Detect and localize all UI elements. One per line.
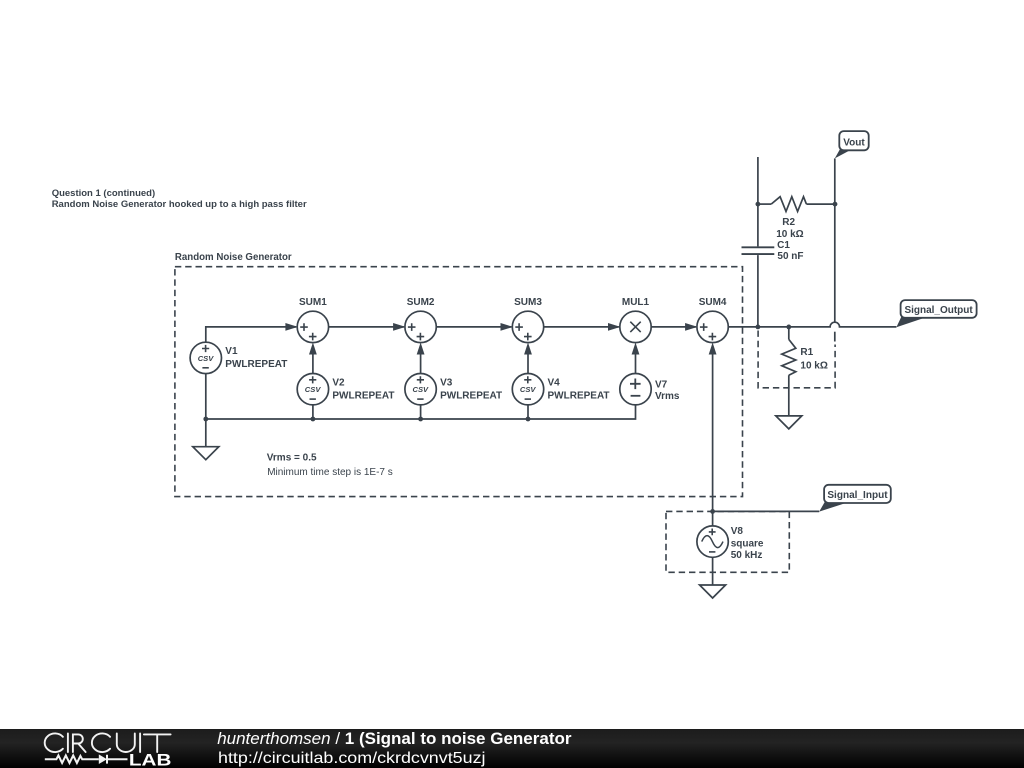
- wire: V3 to SUM2: [420, 354, 422, 373]
- wire: R1 bottom lead to ground: [788, 375, 790, 416]
- svg-text:PWLREPEAT: PWLREPEAT: [332, 390, 394, 401]
- wire: Signal_Input horizontal: [713, 510, 820, 512]
- annotation box: high pass filter (dashed, partial): [758, 331, 835, 388]
- voltage source V1 (PWLREPEAT CSV source): [190, 342, 287, 373]
- arrowhead into SUM1 left: [285, 323, 298, 331]
- arrowhead V3 into SUM2 bottom: [417, 343, 425, 355]
- wire: V4 bottom to bus: [527, 405, 529, 419]
- arrowhead into SUM3 left: [501, 323, 514, 331]
- svg-text:hunterthomsen / 1 (Signal to n: hunterthomsen / 1 (Signal to noise Gener…: [217, 729, 572, 748]
- svg-text:square: square: [731, 538, 764, 549]
- junction: C1 branch at output bus: [756, 325, 761, 330]
- svg-text:V8: V8: [731, 526, 744, 537]
- svg-text:SUM2: SUM2: [407, 297, 435, 308]
- svg-text:50 nF: 50 nF: [777, 251, 803, 262]
- CircuitLab logo: resistor-diode glyph and LAB: [45, 754, 128, 764]
- svg-text:SUM1: SUM1: [299, 297, 327, 308]
- svg-text:Vrms = 0.5: Vrms = 0.5: [267, 452, 317, 463]
- svg-text:CSV: CSV: [412, 385, 429, 394]
- resistor R2: [771, 197, 806, 240]
- svg-text:CSV: CSV: [198, 354, 215, 363]
- svg-text:10 kΩ: 10 kΩ: [776, 229, 803, 240]
- svg-text:V2: V2: [332, 377, 345, 388]
- wire: V2 bottom to bus: [312, 405, 314, 419]
- junction: V1 at bus: [203, 417, 208, 422]
- arrowhead into MUL1 left: [608, 323, 621, 331]
- annotation: Vrms note: [267, 452, 393, 477]
- arrowhead V2 into SUM1 bottom: [309, 343, 317, 355]
- resistor R1: [782, 339, 828, 375]
- wire: R2 left lead: [758, 203, 771, 205]
- summing block SUM3: [512, 297, 543, 343]
- voltage source V3 (PWLREPEAT CSV source): [405, 374, 502, 405]
- summing block SUM2: [405, 297, 436, 343]
- junction: V3 at bus: [418, 417, 423, 422]
- annotation box: Random Noise Generator (dashed): [175, 252, 743, 497]
- wire: V1 output to SUM1 input: [206, 327, 296, 342]
- svg-text:V7: V7: [655, 379, 668, 390]
- wire: V3 bottom to bus: [420, 405, 422, 419]
- voltage source V8 (square 50 kHz): [697, 526, 764, 561]
- svg-text:Vout: Vout: [843, 137, 865, 148]
- wire: V8 top lead: [712, 511, 714, 525]
- voltage source V2 (PWLREPEAT CSV source): [297, 374, 394, 405]
- svg-text:V1: V1: [225, 346, 238, 357]
- svg-text:Signal_Input: Signal_Input: [827, 490, 888, 501]
- arrowhead into SUM4 left: [685, 323, 698, 331]
- capacitor C1: [742, 240, 804, 262]
- multiplier block MUL1: [620, 297, 651, 343]
- wire: V7 to MUL1: [635, 354, 637, 373]
- junction: V8 / Signal_Input tee: [710, 509, 715, 514]
- svg-text:Question 1 (continued): Question 1 (continued): [52, 188, 155, 199]
- svg-text:Minimum time step is 1E-7 s: Minimum time step is 1E-7 s: [267, 467, 393, 478]
- svg-text:Signal_Output: Signal_Output: [904, 305, 973, 316]
- svg-text:V3: V3: [440, 377, 453, 388]
- wire: SUM1 to SUM2: [329, 326, 404, 328]
- arrowhead into SUM4 bottom: [709, 343, 717, 355]
- annotation box around V8 (dashed): [666, 511, 789, 572]
- wire: SUM3 to MUL1: [544, 326, 619, 328]
- svg-text:R1: R1: [800, 347, 813, 358]
- wire: V4 to SUM3: [527, 354, 529, 373]
- svg-text:PWLREPEAT: PWLREPEAT: [548, 390, 610, 401]
- net flag Signal_Output: [896, 300, 976, 327]
- svg-text:LAB: LAB: [129, 752, 172, 768]
- svg-text:R2: R2: [782, 217, 795, 228]
- wire: bottom bus from V1 to V7: [206, 405, 636, 419]
- wire: Vout flag down to R2 right terminal: [834, 158, 836, 204]
- wire: SUM2 to SUM3: [436, 326, 511, 328]
- wire: V2 to SUM1: [312, 354, 314, 373]
- arrowhead into SUM2 left: [393, 323, 406, 331]
- wire: C1 upper segment through R2 junction, stub to top: [757, 157, 759, 246]
- junction: R1 at output bus: [786, 325, 791, 330]
- wire: MUL1 to SUM4: [651, 326, 696, 328]
- net flag Signal_Input: [819, 485, 891, 512]
- footer bar: [0, 729, 1024, 768]
- svg-text:Vrms: Vrms: [655, 391, 680, 402]
- summing block SUM4: [697, 297, 728, 343]
- svg-text:CSV: CSV: [520, 385, 537, 394]
- svg-text:MUL1: MUL1: [622, 297, 650, 308]
- svg-text:CSV: CSV: [305, 385, 322, 394]
- wire: C1 branch lower segment to bus: [757, 255, 759, 327]
- svg-text:50 kHz: 50 kHz: [731, 550, 763, 561]
- wire: stub below hop: [834, 332, 836, 342]
- svg-text:C1: C1: [777, 240, 790, 251]
- arrowhead V4 into SUM3 bottom: [524, 343, 532, 355]
- wire: SUM4 output bus with hop over Vout wire, to Signal_Output: [728, 322, 896, 327]
- arrowhead V7 into MUL1 bottom: [632, 343, 640, 355]
- svg-text:SUM3: SUM3: [514, 297, 542, 308]
- svg-text:10 kΩ: 10 kΩ: [800, 361, 827, 372]
- ground below V1: [193, 447, 219, 460]
- CircuitLab logo: CIRCUIT wordmark: [45, 733, 171, 752]
- voltage source V4 (PWLREPEAT CSV source): [512, 374, 609, 405]
- summing block SUM1: [297, 297, 328, 343]
- wire: R2 right terminal down to bus crossing (hop): [834, 204, 836, 322]
- wire: V1 bottom to ground/bus: [205, 374, 207, 447]
- svg-text:SUM4: SUM4: [699, 297, 727, 308]
- wire: R1 top lead from bus: [788, 327, 790, 340]
- wire: R2 right lead: [806, 203, 835, 205]
- junction: R2 left terminal: [756, 202, 761, 207]
- svg-text:PWLREPEAT: PWLREPEAT: [440, 390, 502, 401]
- junction: V2 at bus: [311, 417, 316, 422]
- ground below V8: [700, 585, 726, 598]
- ground below R1: [776, 416, 802, 429]
- voltage source V7 (Vrms DC source): [620, 374, 680, 405]
- svg-text:V4: V4: [548, 377, 561, 388]
- svg-text:PWLREPEAT: PWLREPEAT: [225, 359, 287, 370]
- wire: V8 bottom to ground: [712, 557, 714, 585]
- net flag Vout: [835, 131, 869, 158]
- svg-text:http://circuitlab.com/ckrdcvnv: http://circuitlab.com/ckrdcvnvt5uzj: [218, 750, 486, 767]
- wire: Signal_Input/V8 junction up to SUM4: [712, 354, 714, 511]
- junction: V4 at bus: [526, 417, 531, 422]
- svg-text:Random Noise Generator hooked: Random Noise Generator hooked up to a hi…: [52, 199, 307, 210]
- annotation: question text: [52, 188, 307, 210]
- junction: R2 right terminal / Vout: [833, 202, 838, 207]
- svg-text:Random Noise Generator: Random Noise Generator: [175, 252, 292, 263]
